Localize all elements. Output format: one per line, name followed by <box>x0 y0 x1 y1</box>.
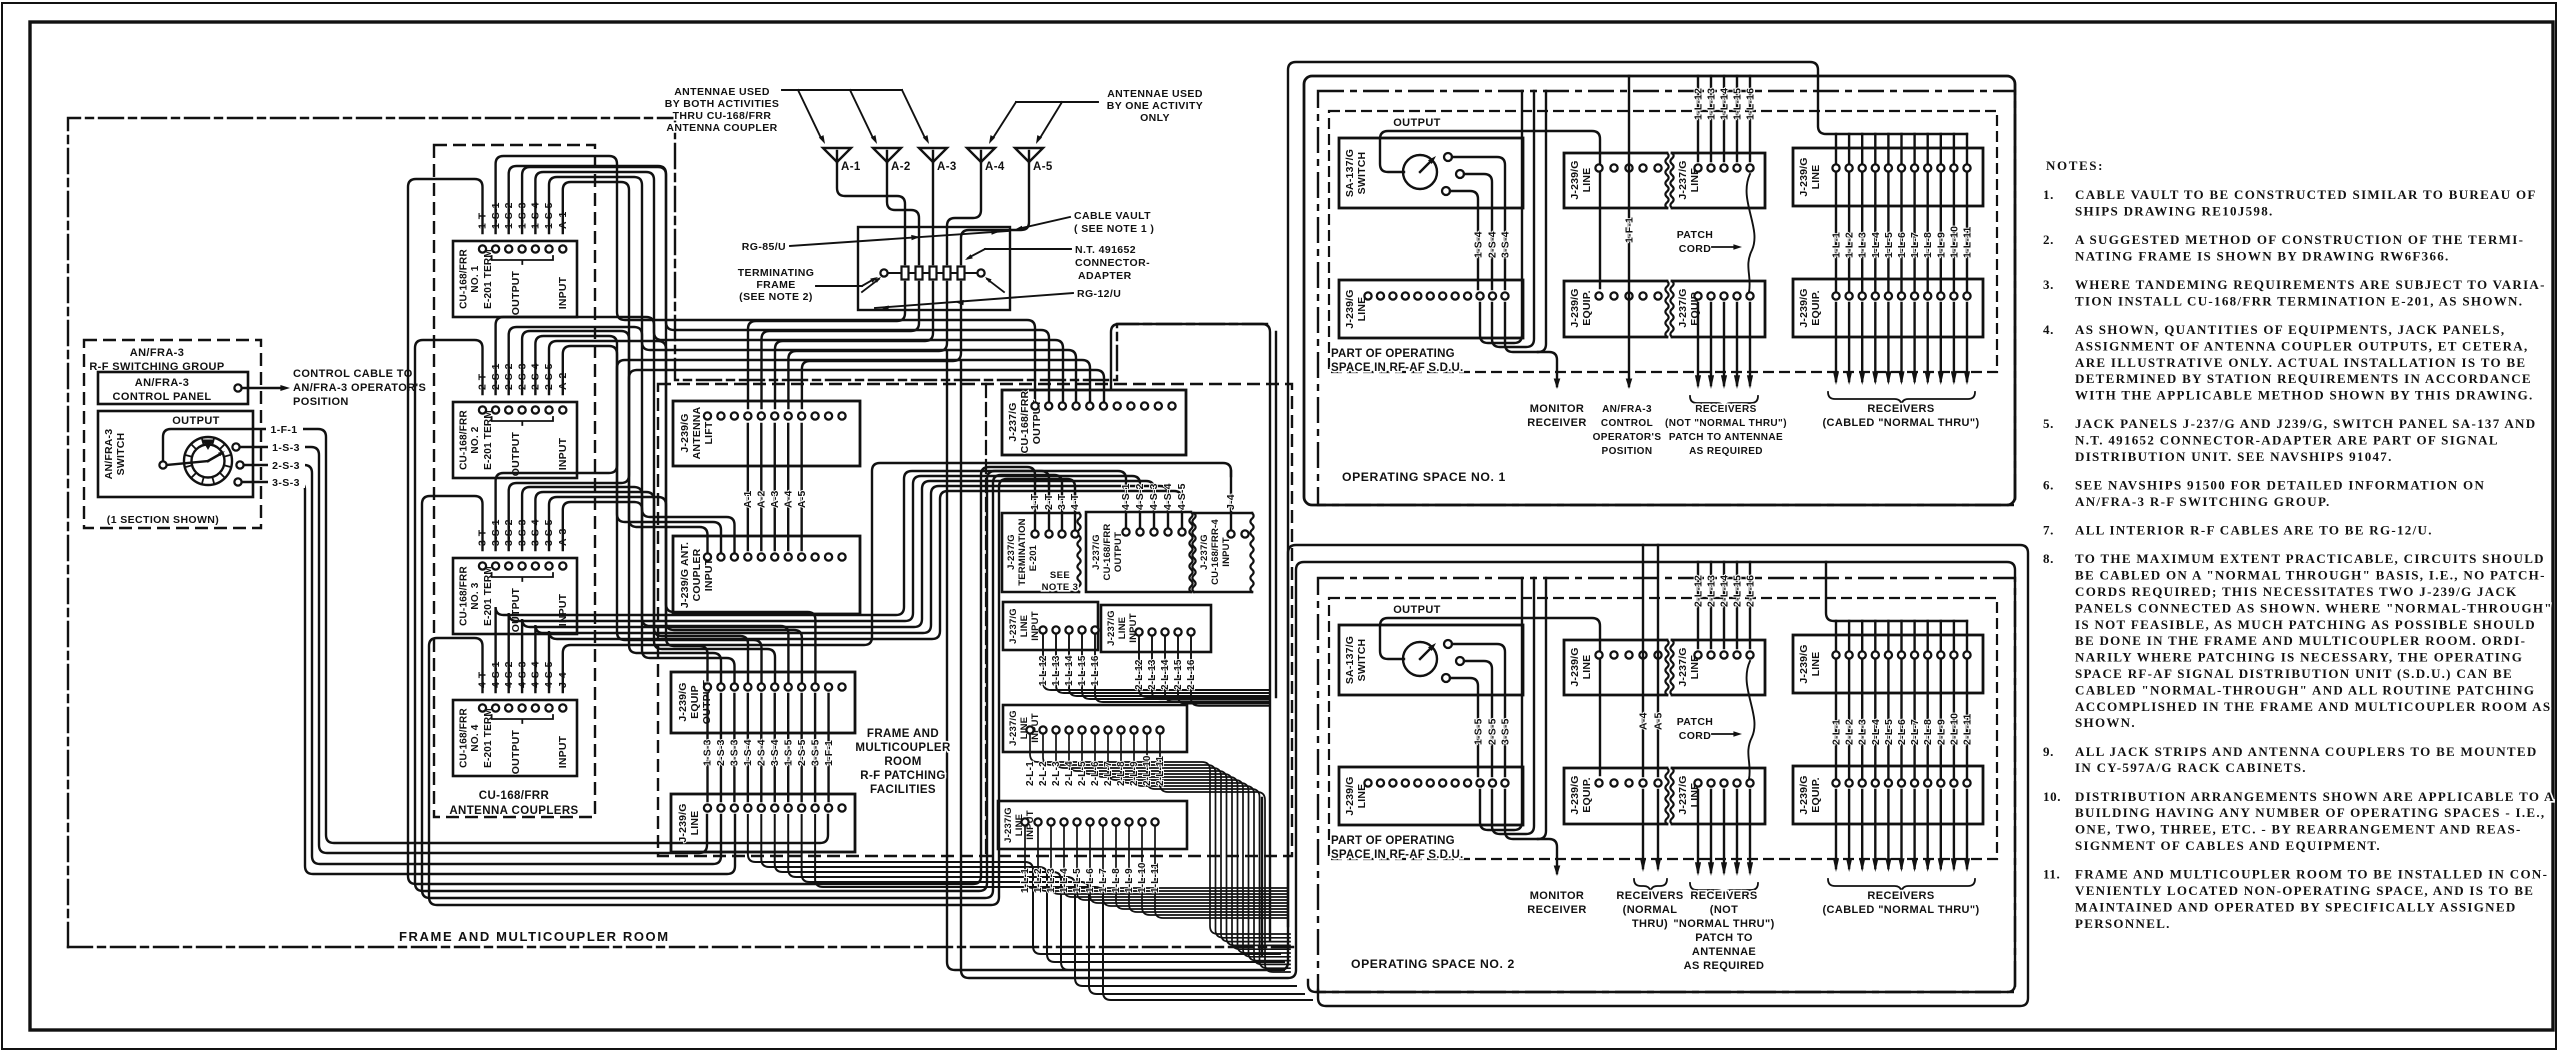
CU-168/FRR NO. 4 terminals <box>479 704 486 711</box>
cable A-4 down to operating space 2 <box>947 351 2028 1006</box>
svg-text:J-239/G: J-239/G <box>1798 775 1810 814</box>
svg-text:FRAME AND MULTICOUPLER ROOM TO: FRAME AND MULTICOUPLER ROOM TO BE INSTAL… <box>2075 867 2548 882</box>
svg-text:8.: 8. <box>2043 551 2054 566</box>
svg-text:1-L-4: 1-L-4 <box>1059 868 1070 893</box>
svg-text:LINE: LINE <box>1581 655 1593 680</box>
svg-text:AN/FRA-3: AN/FRA-3 <box>130 347 185 359</box>
svg-text:1-L-1: 1-L-1 <box>1831 232 1843 258</box>
svg-text:1-L-13: 1-L-13 <box>1706 88 1718 120</box>
jack panel J-239/G LINE right op1 <box>1793 148 1983 206</box>
svg-text:FRAME AND: FRAME AND <box>867 728 939 740</box>
wire A-1 coupler input <box>563 182 708 553</box>
wire 1-S-5 coupler to patch column <box>549 177 788 683</box>
svg-text:J-237/G: J-237/G <box>1677 160 1689 199</box>
svg-text:2-L-12: 2-L-12 <box>1693 575 1705 607</box>
svg-text:ANTENNA: ANTENNA <box>691 406 703 459</box>
svg-text:J-239/G: J-239/G <box>677 803 689 842</box>
svg-text:A-3: A-3 <box>769 490 781 508</box>
svg-text:J-239/G: J-239/G <box>1798 644 1810 683</box>
svg-text:2-S-3: 2-S-3 <box>715 739 727 766</box>
svg-text:FACILITIES: FACILITIES <box>870 784 936 796</box>
svg-text:OUTPUT: OUTPUT <box>1393 604 1441 616</box>
svg-text:OUTPUT: OUTPUT <box>1113 532 1124 572</box>
svg-text:BE DONE IN THE FRAME AND MULTI: BE DONE IN THE FRAME AND MULTICOUPLER RO… <box>2075 633 2526 648</box>
svg-text:1-L-11: 1-L-11 <box>1150 863 1161 893</box>
wires 2-L-1..11 <box>1030 734 1290 934</box>
svg-text:10.: 10. <box>2043 789 2061 804</box>
svg-text:SA-137/G: SA-137/G <box>1344 636 1356 684</box>
antenna A-1 <box>823 148 851 162</box>
rotary switch op1 <box>1403 155 1437 189</box>
svg-text:1-S-5: 1-S-5 <box>1473 718 1485 745</box>
jack panel J-237/G LINE INPUT no.3 <box>1003 705 1187 752</box>
svg-text:4-S-2: 4-S-2 <box>1134 483 1146 510</box>
svg-text:BUILDING HAVING ANY NUMBER OF: BUILDING HAVING ANY NUMBER OF OPERATING … <box>2075 805 2545 820</box>
switch panel SA-137/G op1 <box>1339 138 1523 208</box>
switch wires 1-S-4 2-S-4 3-S-4 op1 <box>1452 157 1505 289</box>
jack panel J-237/G EQUIP lower op1 <box>1672 281 1765 337</box>
svg-text:J-239/G: J-239/G <box>1569 775 1581 814</box>
svg-text:POSITION: POSITION <box>1602 446 1653 457</box>
svg-text:1-L-9: 1-L-9 <box>1124 868 1135 893</box>
svg-text:(CABLED "NORMAL THRU"): (CABLED "NORMAL THRU") <box>1822 417 1979 429</box>
operating space no.2 boundary <box>1318 578 2015 992</box>
jack panel J-239/G LINE frame room <box>671 794 855 852</box>
svg-text:NOTES:: NOTES: <box>2046 158 2104 173</box>
svg-text:JACK PANELS J-237/G AND J239/G: JACK PANELS J-237/G AND J239/G, SWITCH P… <box>2075 416 2536 431</box>
svg-text:A-5: A-5 <box>1653 712 1665 730</box>
CU-168/FRR NO. 3 terminals <box>479 562 486 569</box>
jack panel J-239/G LINE middle op1 <box>1564 153 1667 208</box>
antenna A-3 feeder <box>932 162 934 264</box>
svg-text:2-L-10: 2-L-10 <box>1948 713 1960 745</box>
svg-text:2-L-7: 2-L-7 <box>1909 719 1921 745</box>
svg-text:J-237/G: J-237/G <box>1677 647 1689 686</box>
antenna A-4 feeder <box>947 162 981 264</box>
svg-text:BY ONE ACTIVITY: BY ONE ACTIVITY <box>1107 100 1203 112</box>
svg-text:1-L-16: 1-L-16 <box>1745 88 1757 120</box>
jack panel J-237/G LINE lower op2 <box>1672 768 1765 824</box>
wire 2-S-3 coupler to patch column <box>522 331 721 683</box>
cable vault box <box>858 227 1010 310</box>
wire 1-F-1 op1 <box>1628 76 1630 386</box>
wire 4-T <box>429 479 1075 905</box>
switch output wire op2 <box>1380 618 1600 775</box>
svg-text:AN/FRA-3: AN/FRA-3 <box>135 377 190 389</box>
svg-text:1-F-1: 1-F-1 <box>1624 217 1636 243</box>
svg-text:LINE: LINE <box>1810 652 1822 677</box>
svg-text:J-237/G: J-237/G <box>1677 775 1689 814</box>
svg-text:SEE: SEE <box>1050 570 1070 581</box>
antenna coupler CU-168/FRR NO. 4 <box>453 700 577 776</box>
svg-text:2-L-2: 2-L-2 <box>1038 761 1049 786</box>
svg-text:SPACE RF-AF SIGNAL DISTRIBUTIO: SPACE RF-AF SIGNAL DISTRIBUTION UNIT (S.… <box>2075 666 2513 681</box>
svg-text:1-L-15: 1-L-15 <box>1732 88 1744 120</box>
svg-text:PART OF OPERATING: PART OF OPERATING <box>1331 835 1455 847</box>
svg-text:OUTPUT: OUTPUT <box>510 729 522 774</box>
svg-text:AS REQUIRED: AS REQUIRED <box>1689 446 1763 457</box>
svg-text:ROOM: ROOM <box>884 756 921 768</box>
svg-text:J-239/G: J-239/G <box>1344 289 1356 328</box>
svg-text:OPERATING SPACE NO. 2: OPERATING SPACE NO. 2 <box>1351 957 1515 971</box>
svg-text:INPUT: INPUT <box>1221 537 1232 567</box>
monitor receiver wire op2 <box>1505 790 1557 873</box>
svg-text:DISTRIBUTION ARRANGEMENTS SHOW: DISTRIBUTION ARRANGEMENTS SHOWN ARE APPL… <box>2075 789 2555 804</box>
wires A-4 A-5 op2 <box>1642 545 1644 776</box>
svg-text:AN/FRA-3: AN/FRA-3 <box>1602 404 1652 415</box>
wire 3-S-2 <box>509 370 1104 550</box>
svg-text:NO. 3: NO. 3 <box>470 582 481 609</box>
svg-text:2-L-14: 2-L-14 <box>1719 575 1731 607</box>
svg-text:2-L-11: 2-L-11 <box>1962 713 1974 745</box>
svg-text:1-S-3: 1-S-3 <box>702 739 714 766</box>
svg-text:TERMINATION: TERMINATION <box>1017 518 1028 585</box>
vault cable 4 to antenna lift <box>788 282 947 408</box>
jack panel J-239/G LINE lower-left op2 <box>1339 767 1523 825</box>
svg-text:CORD: CORD <box>1679 730 1712 742</box>
jack panel J-237/G LINE top op2 <box>1672 640 1765 695</box>
svg-text:RECEIVERS: RECEIVERS <box>1867 403 1934 415</box>
svg-text:J-239/G: J-239/G <box>1569 647 1581 686</box>
svg-text:RECEIVERS: RECEIVERS <box>1616 890 1683 902</box>
wire 3-S-3 switch to J-239/G LINE jack 3 <box>242 482 735 874</box>
svg-text:3-S-5: 3-S-5 <box>1500 718 1512 745</box>
svg-text:J-239/G: J-239/G <box>1569 288 1581 327</box>
AN/FRA-3 control panel <box>98 372 248 404</box>
svg-text:MONITOR: MONITOR <box>1530 890 1585 902</box>
svg-text:1-L-15: 1-L-15 <box>1077 655 1088 686</box>
svg-text:CU-168/FRR: CU-168/FRR <box>459 566 470 626</box>
svg-text:( SEE NOTE 1 ): ( SEE NOTE 1 ) <box>1074 223 1154 235</box>
svg-text:3-S-4: 3-S-4 <box>1500 231 1512 258</box>
svg-text:3-T: 3-T <box>1056 493 1068 510</box>
svg-text:2.: 2. <box>2043 232 2054 247</box>
svg-text:BY BOTH ACTIVITIES: BY BOTH ACTIVITIES <box>665 98 780 110</box>
svg-text:2-S-5: 2-S-5 <box>796 739 808 766</box>
svg-text:1-L-5: 1-L-5 <box>1072 868 1083 893</box>
svg-text:1-L-1: 1-L-1 <box>1020 868 1031 893</box>
svg-text:4-S-5: 4-S-5 <box>1176 483 1188 510</box>
svg-text:2-L-15: 2-L-15 <box>1173 659 1184 690</box>
svg-text:A-1: A-1 <box>841 161 861 173</box>
svg-text:2-T: 2-T <box>1043 493 1055 510</box>
svg-text:SWITCH: SWITCH <box>1356 639 1368 682</box>
jack panel J-237/G LINE top op1 <box>1672 153 1765 208</box>
svg-text:2-L-1: 2-L-1 <box>1831 719 1843 745</box>
leader arrows to A-1 A-2 A-3 <box>782 89 902 91</box>
svg-text:OUTPUT: OUTPUT <box>510 431 522 476</box>
svg-text:1-L-2: 1-L-2 <box>1844 232 1856 258</box>
svg-text:1-T: 1-T <box>1029 493 1041 510</box>
svg-text:2-L-3: 2-L-3 <box>1857 719 1869 745</box>
operating space 2 receiver bus <box>1826 562 1967 621</box>
operating space 1 outer trunk and receiver bus <box>1288 62 1967 926</box>
svg-text:NO. 4: NO. 4 <box>470 724 481 751</box>
svg-text:2-L-15: 2-L-15 <box>1732 575 1744 607</box>
vault cable 1 to antenna lift <box>748 282 905 408</box>
operating space no.1 boundary <box>1304 76 2015 505</box>
svg-text:J-239/G: J-239/G <box>679 413 691 452</box>
patch cord op1 <box>1747 174 1755 292</box>
svg-text:1-L-9: 1-L-9 <box>1935 232 1947 258</box>
jack panel J-239/G EQUIP right op2 <box>1793 766 1983 824</box>
svg-text:2-L-11: 2-L-11 <box>1155 756 1166 786</box>
svg-text:ANTENNA COUPLERS: ANTENNA COUPLERS <box>449 805 578 817</box>
wire 3-S-5 coupler to patch column <box>549 497 815 683</box>
jack panel J-237/G CU-168/FRR OUTPUT upper <box>1002 390 1186 455</box>
svg-text:COUPLER: COUPLER <box>691 548 703 601</box>
svg-text:(SEE NOTE 2): (SEE NOTE 2) <box>739 291 813 303</box>
svg-text:CONTROL PANEL: CONTROL PANEL <box>113 391 212 403</box>
svg-text:1-L-10: 1-L-10 <box>1948 226 1960 258</box>
svg-text:RECEIVERS: RECEIVERS <box>1695 404 1756 415</box>
CU-168/FRR antenna couplers dashed box <box>434 145 595 817</box>
svg-text:2-L-4: 2-L-4 <box>1064 761 1075 786</box>
svg-text:TION INSTALL CU-168/FRR TERMIN: TION INSTALL CU-168/FRR TERMINATION E-20… <box>2075 293 2523 308</box>
svg-text:(NOT: (NOT <box>1710 904 1738 916</box>
wires 2-L-12..16 <box>1139 636 1270 697</box>
svg-text:1-L-11: 1-L-11 <box>1962 226 1974 258</box>
svg-text:RECEIVERS: RECEIVERS <box>1867 890 1934 902</box>
svg-text:A-5: A-5 <box>796 490 808 508</box>
svg-text:CONTROL: CONTROL <box>1601 418 1653 429</box>
svg-text:9.: 9. <box>2043 744 2054 759</box>
svg-text:2-L-8: 2-L-8 <box>1116 761 1127 786</box>
wires looping below line panel op2 <box>1480 578 1522 830</box>
svg-text:CORD: CORD <box>1679 243 1712 255</box>
svg-text:1-L-7: 1-L-7 <box>1098 868 1109 893</box>
svg-text:2-L-16: 2-L-16 <box>1745 575 1757 607</box>
svg-text:LINE: LINE <box>1356 784 1368 809</box>
wire 1-S-3 coupler to patch column <box>522 167 707 683</box>
svg-text:SIGNMENT OF CABLES AND EQUIPME: SIGNMENT OF CABLES AND EQUIPMENT. <box>2075 838 2381 853</box>
svg-text:CABLE VAULT: CABLE VAULT <box>1074 210 1151 222</box>
antenna coupler CU-168/FRR NO. 1 <box>453 241 577 317</box>
svg-text:4-S-1: 4-S-1 <box>1120 483 1132 510</box>
switch wires 1-S-5 2-S-5 3-S-5 op2 <box>1452 644 1505 776</box>
svg-text:1-F-1: 1-F-1 <box>270 424 297 436</box>
svg-text:1-L-6: 1-L-6 <box>1085 868 1096 893</box>
svg-text:2-L-6: 2-L-6 <box>1896 719 1908 745</box>
svg-text:OPERATOR'S: OPERATOR'S <box>1593 432 1662 443</box>
svg-text:A-2: A-2 <box>756 490 768 508</box>
svg-text:4-S-4: 4-S-4 <box>1162 483 1174 510</box>
switch panel SA-137/G op2 <box>1339 625 1523 695</box>
switch terminals 1-S-3 2-S-3 3-S-3 <box>232 443 239 450</box>
jack panel J-237/G LINE INPUT no.2 <box>1101 605 1211 652</box>
svg-text:4-T: 4-T <box>1069 493 1081 510</box>
svg-text:VENIENTLY LOCATED NON-OPERATIN: VENIENTLY LOCATED NON-OPERATING SPACE, A… <box>2075 883 2534 898</box>
svg-text:AS REQUIRED: AS REQUIRED <box>1684 960 1765 972</box>
svg-text:(1 SECTION SHOWN): (1 SECTION SHOWN) <box>107 514 219 526</box>
jack panel J-237/G CU-168/FRR OUTPUT lower <box>1086 512 1191 592</box>
svg-text:1-S-3: 1-S-3 <box>272 442 300 454</box>
svg-text:1-S-4: 1-S-4 <box>742 739 754 766</box>
svg-text:J-239/G: J-239/G <box>677 682 689 721</box>
svg-text:CU-168/FRR: CU-168/FRR <box>1102 524 1113 581</box>
svg-text:1-L-8: 1-L-8 <box>1922 232 1934 258</box>
svg-text:TERMINATING: TERMINATING <box>738 267 815 279</box>
svg-text:CORDS REQUIRED; THIS NECESSITA: CORDS REQUIRED; THIS NECESSITATES TWO J-… <box>2075 584 2518 599</box>
svg-text:N.T. 491652 CONNECTOR-ADAPTER: N.T. 491652 CONNECTOR-ADAPTER ARE PART O… <box>2075 433 2499 448</box>
wire 2-S-4 coupler to patch column <box>535 336 761 683</box>
wire 3-T <box>422 475 1062 898</box>
svg-text:(CABLED "NORMAL THRU"): (CABLED "NORMAL THRU") <box>1822 904 1979 916</box>
svg-text:LINE: LINE <box>1117 617 1128 639</box>
receiver arrows not normal thru op2 <box>1697 790 1699 872</box>
svg-text:A SUGGESTED METHOD OF CONSTRUC: A SUGGESTED METHOD OF CONSTRUCTION OF TH… <box>2075 232 2524 247</box>
svg-text:7.: 7. <box>2043 523 2054 538</box>
svg-text:ANTENNAE USED: ANTENNAE USED <box>1107 88 1203 100</box>
svg-text:INPUT: INPUT <box>557 735 569 768</box>
svg-text:INPUT: INPUT <box>1030 611 1041 641</box>
svg-text:IN CY-597A/G RACK CABINETS.: IN CY-597A/G RACK CABINETS. <box>2075 760 2307 775</box>
cable A-5 down to operating space 2 <box>961 361 2015 992</box>
svg-text:RECEIVER: RECEIVER <box>1527 417 1586 429</box>
svg-text:AN/FRA-3 OPERATOR'S: AN/FRA-3 OPERATOR'S <box>293 382 426 394</box>
svg-text:J-237/G: J-237/G <box>1007 402 1019 441</box>
svg-text:J-239/G: J-239/G <box>1798 157 1810 196</box>
svg-text:J-237/G: J-237/G <box>1091 534 1102 570</box>
vault cable 5 to antenna lift <box>802 282 961 408</box>
svg-text:ONE, TWO, THREE, ETC. - BY REA: ONE, TWO, THREE, ETC. - BY REARRANGEMENT… <box>2075 822 2522 837</box>
antenna coupler CU-168/FRR NO. 3 <box>453 558 577 634</box>
switch output wire op1 <box>1380 131 1600 288</box>
svg-text:1-L-7: 1-L-7 <box>1909 232 1921 258</box>
svg-text:PATCH: PATCH <box>1677 229 1714 241</box>
wires 4-S-1 to 4-S-5 from coupler no.4 <box>496 471 1126 692</box>
jack panel J-239/G ANT. COUPLER INPUT <box>673 536 860 614</box>
wire A-2 coupler input <box>563 346 721 553</box>
svg-text:EQUIP.: EQUIP. <box>1810 777 1822 812</box>
line input bundle risers to operating spaces <box>1275 332 1277 697</box>
patch cord op2 <box>1747 661 1755 779</box>
svg-text:RECEIVER: RECEIVER <box>1527 904 1586 916</box>
svg-text:NO. 2: NO. 2 <box>470 426 481 453</box>
switch wire labels <box>266 423 303 435</box>
wires 1-L-12..16 <box>1043 634 1270 690</box>
svg-text:INPUT: INPUT <box>557 276 569 309</box>
svg-text:A-5: A-5 <box>1033 161 1053 173</box>
svg-text:MULTICOUPLER: MULTICOUPLER <box>855 742 951 754</box>
svg-text:WITH THE APPLICABLE METHOD SHO: WITH THE APPLICABLE METHOD SHOWN BY THIS… <box>2075 388 2534 403</box>
svg-text:ARE ILLUSTRATIVE ONLY. ACTUAL: ARE ILLUSTRATIVE ONLY. ACTUAL INSTALLATI… <box>2075 355 2526 370</box>
jack panel J-237/G TERMINATION E-201 <box>1002 513 1079 592</box>
vault cable 3 to antenna lift <box>775 282 933 408</box>
svg-text:2-L-14: 2-L-14 <box>1160 659 1171 690</box>
svg-text:E-201: E-201 <box>1028 544 1039 571</box>
leader line one activity <box>1016 101 1098 103</box>
wires 1-L-1..11 <box>1025 826 1288 888</box>
trunk riser line input bundle <box>1261 798 1263 956</box>
control cable arrow <box>242 387 284 389</box>
jack panel J-239/G LINE right op2 <box>1793 635 1983 693</box>
monitor receiver wire op1 <box>1505 303 1557 386</box>
wire 2-S-3 switch to J-239/G LINE jack 2 <box>244 465 721 864</box>
wire 2-S-2 <box>509 327 1076 406</box>
svg-text:CONNECTOR-: CONNECTOR- <box>1075 257 1150 269</box>
svg-text:(NOT "NORMAL THRU"): (NOT "NORMAL THRU") <box>1665 418 1787 429</box>
svg-text:OUTPUT: OUTPUT <box>510 587 522 632</box>
svg-text:NO. 1: NO. 1 <box>470 265 481 292</box>
svg-text:1-L-14: 1-L-14 <box>1719 88 1731 120</box>
svg-text:J-4: J-4 <box>1225 494 1237 510</box>
antenna A-4 <box>967 148 995 162</box>
svg-text:CU-168/FRR: CU-168/FRR <box>1019 390 1031 453</box>
svg-text:CABLED "NORMAL-THROUGH" AND AL: CABLED "NORMAL-THROUGH" AND ALL ROUTINE … <box>2075 682 2535 697</box>
svg-text:LINE: LINE <box>1356 297 1368 322</box>
svg-text:N.T. 491652: N.T. 491652 <box>1075 244 1136 256</box>
wire 1-S-4 coupler to patch column <box>535 172 748 683</box>
svg-text:6.: 6. <box>2043 478 2054 493</box>
jack panel J-237/G CU-168/FRR-4 INPUT <box>1194 513 1252 592</box>
svg-text:1-L-12: 1-L-12 <box>1038 655 1049 686</box>
svg-text:SPACE IN RF-AF S.D.U.: SPACE IN RF-AF S.D.U. <box>1331 849 1463 861</box>
svg-text:J-237/G: J-237/G <box>1106 610 1117 646</box>
svg-text:1-S-5: 1-S-5 <box>782 739 794 766</box>
svg-text:ANTENNA COUPLER: ANTENNA COUPLER <box>666 122 777 134</box>
jack panel J-237/G LINE INPUT no.1 <box>1003 602 1098 650</box>
operating space no.2 S.D.U. dashed box <box>1329 598 1997 859</box>
svg-text:1-L-13: 1-L-13 <box>1051 655 1062 686</box>
svg-text:1-S-4: 1-S-4 <box>1473 231 1485 258</box>
jack panel J-239/G LINE middle op2 <box>1564 640 1667 695</box>
svg-text:2-L-4: 2-L-4 <box>1870 719 1882 745</box>
svg-text:3-S-4: 3-S-4 <box>769 739 781 766</box>
AN/FRA-3 switch box <box>98 411 253 497</box>
svg-text:CABLE VAULT TO BE CONSTRUCTED: CABLE VAULT TO BE CONSTRUCTED SIMILAR TO… <box>2075 187 2537 202</box>
svg-text:1-L-6: 1-L-6 <box>1896 232 1908 258</box>
svg-text:ALL INTERIOR R-F CABLES ARE TO: ALL INTERIOR R-F CABLES ARE TO BE RG-12/… <box>2075 523 2433 538</box>
patching facilities inner dashed divider <box>985 384 987 856</box>
antenna A-2 <box>873 148 901 162</box>
svg-text:SA-137/G: SA-137/G <box>1344 149 1356 197</box>
svg-text:R-F PATCHING: R-F PATCHING <box>860 770 946 782</box>
svg-text:1-L-4: 1-L-4 <box>1870 232 1882 258</box>
svg-text:MONITOR: MONITOR <box>1530 403 1585 415</box>
trunk riser right of patch facilities <box>1111 324 1270 940</box>
svg-text:SHOWN.: SHOWN. <box>2075 715 2136 730</box>
svg-text:EQUIP.: EQUIP. <box>1581 777 1593 812</box>
svg-text:2-L-5: 2-L-5 <box>1077 761 1088 786</box>
svg-text:EQUIP.: EQUIP. <box>1810 290 1822 325</box>
svg-text:MAINTAINED AND OPERATED BY SPE: MAINTAINED AND OPERATED BY SPECIFICALLY … <box>2075 899 2517 914</box>
CU-168/FRR NO. 1 terminals <box>479 245 486 252</box>
svg-text:1-L-16: 1-L-16 <box>1090 655 1101 686</box>
svg-text:FRAME: FRAME <box>756 279 795 291</box>
wires S-4 S-5 leaving line panel to trunk <box>748 815 1280 954</box>
wire 1-T <box>408 179 1035 884</box>
wire A-3 coupler input <box>563 502 735 553</box>
jack panel J-239/G ANTENNA LIFT <box>673 401 860 466</box>
svg-text:AN/FRA-3: AN/FRA-3 <box>103 429 115 480</box>
wire 3-S-4 coupler to patch column <box>535 492 775 683</box>
AN/FRA-3 R-F switching group dashed box <box>84 340 261 528</box>
svg-text:PATCH TO ANTENNAE: PATCH TO ANTENNAE <box>1669 432 1783 443</box>
svg-text:2-L-16: 2-L-16 <box>1186 659 1197 690</box>
operating space no.1 S.D.U. dashed box <box>1329 111 1997 372</box>
svg-text:EQUIP: EQUIP <box>689 685 701 719</box>
svg-text:(NORMAL: (NORMAL <box>1623 904 1678 916</box>
svg-text:LINE: LINE <box>1810 165 1822 190</box>
svg-text:1-L-5: 1-L-5 <box>1883 232 1895 258</box>
svg-text:3-S-3: 3-S-3 <box>272 477 300 489</box>
svg-text:J-237/G: J-237/G <box>1008 608 1019 644</box>
svg-text:DETERMINED BY STATION REQUIREM: DETERMINED BY STATION REQUIREMENTS IN AC… <box>2075 371 2532 386</box>
svg-text:CONTROL CABLE TO: CONTROL CABLE TO <box>293 368 413 380</box>
svg-text:1-L-10: 1-L-10 <box>1137 862 1148 893</box>
svg-text:A-4: A-4 <box>1638 712 1650 730</box>
